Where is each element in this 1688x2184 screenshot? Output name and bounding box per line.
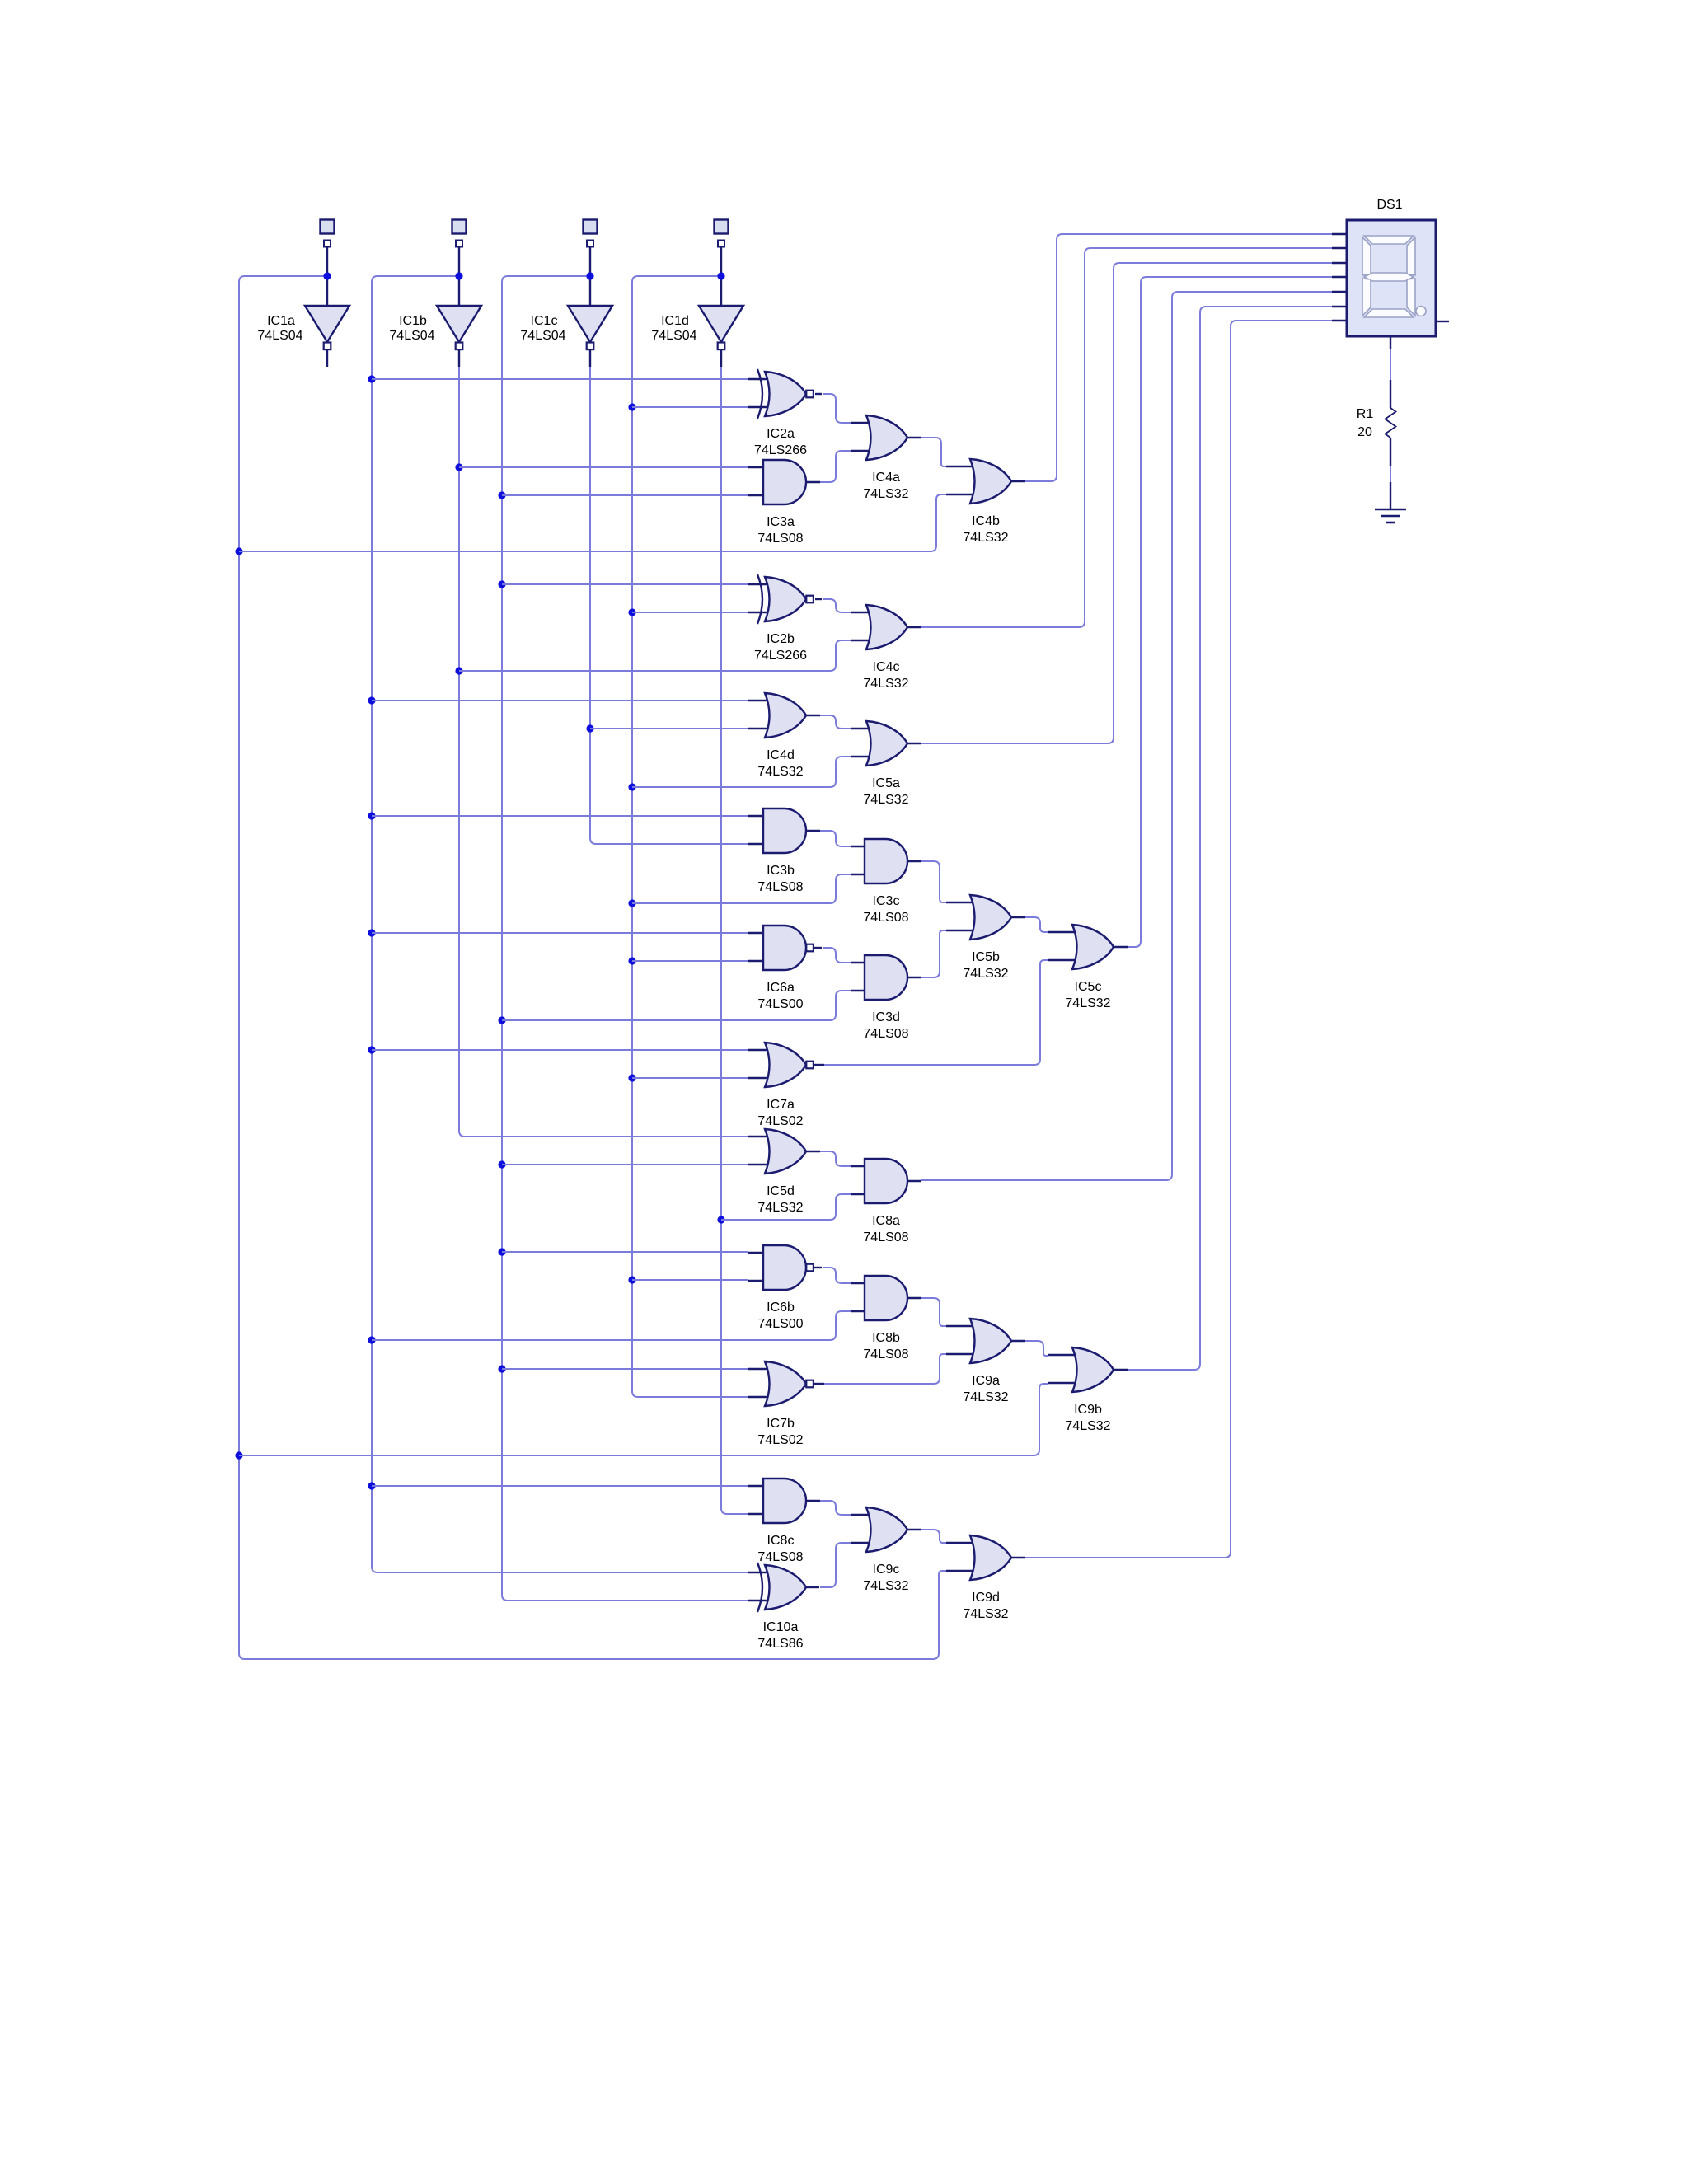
svg-text:74LS00: 74LS00 [757, 997, 803, 1011]
svg-text:IC5a: IC5a [872, 776, 900, 790]
wire IC3d output to IC5b input 2 [921, 930, 946, 977]
svg-text:IC4d: IC4d [767, 748, 795, 762]
NOR gate IC7a 74LS02 [748, 1043, 824, 1128]
wire DS1 common pin to R1 [1390, 349, 1391, 380]
svg-text:IC1a: IC1a [267, 314, 295, 328]
wire IC5b output to IC5c input 1 [1025, 917, 1048, 932]
wire IC6b output to IC8b input 1 [823, 1268, 851, 1283]
wire segment f : IC9b output to DS1 pin 6 [1128, 307, 1332, 1370]
svg-text:IC5c: IC5c [1075, 980, 1102, 994]
wire C to IC7b input 1 [502, 1368, 748, 1370]
svg-text:IC9a: IC9a [972, 1374, 1000, 1388]
OR gate IC5d 74LS32 [748, 1129, 820, 1215]
wire C to IC5d input 2 [502, 1164, 748, 1165]
svg-text:74LS32: 74LS32 [863, 677, 908, 691]
svg-text:74LS02: 74LS02 [757, 1114, 803, 1128]
net D' : IC1d output bus [717, 367, 748, 1514]
wire C to IC3d input 2 [502, 991, 851, 1020]
svg-text:IC1b: IC1b [399, 314, 427, 328]
AND gate IC3d 74LS08 [851, 955, 921, 1041]
svg-text:IC1d: IC1d [661, 314, 689, 328]
wire B' to IC3a input 1 [459, 466, 748, 468]
svg-text:IC9c: IC9c [873, 1563, 900, 1577]
svg-text:IC5d: IC5d [767, 1184, 795, 1198]
svg-text:IC2b: IC2b [767, 632, 795, 646]
resistor R1 20 [1357, 380, 1396, 466]
wire R1 to ground [1390, 466, 1391, 482]
wire B to IC4d input 1 [372, 700, 748, 701]
OR gate IC4a 74LS32 [851, 415, 921, 501]
inverter IC1d 74LS04 [651, 246, 743, 367]
wire segment a : IC4b output to DS1 pin 1 [1025, 234, 1332, 481]
svg-text:74LS04: 74LS04 [651, 329, 696, 343]
wire IC5d output to IC8a input 1 [818, 1151, 851, 1166]
svg-text:IC3b: IC3b [767, 864, 795, 878]
svg-text:74LS00: 74LS00 [757, 1317, 803, 1331]
OR gate IC9a 74LS32 [946, 1319, 1025, 1404]
wire B to IC6a input 1 [372, 932, 748, 934]
NAND gate IC6a 74LS00 [748, 926, 822, 1011]
input terminal 3 [584, 220, 598, 247]
wire IC9a output to IC9b input 1 [1025, 1341, 1048, 1356]
wire A to IC4b input 2 [239, 494, 946, 551]
svg-text:IC2a: IC2a [767, 427, 795, 441]
wire D to IC6b input 2 [632, 1279, 748, 1281]
wire D to IC2b input 2 [632, 612, 748, 613]
svg-text:74LS32: 74LS32 [863, 487, 908, 501]
svg-text:IC9d: IC9d [972, 1591, 1000, 1605]
wire B to IC8b input 2 [372, 1311, 851, 1340]
ground symbol [1375, 482, 1406, 523]
svg-text:R1: R1 [1357, 407, 1374, 421]
net B : input-2 bus [368, 272, 748, 1572]
inverter IC1c 74LS04 [520, 246, 612, 367]
svg-text:IC3c: IC3c [873, 894, 900, 908]
XNOR gate IC2a 74LS266 [748, 369, 822, 457]
OR gate IC5a 74LS32 [851, 721, 921, 807]
svg-text:IC4c: IC4c [873, 660, 900, 674]
AND gate IC8b 74LS08 [851, 1276, 921, 1361]
inverter IC1a 74LS04 [257, 246, 349, 367]
OR gate IC4b 74LS32 [946, 459, 1025, 545]
wire D to IC5a input 2 [632, 757, 851, 787]
svg-text:IC3a: IC3a [767, 515, 795, 529]
svg-text:74LS08: 74LS08 [757, 1550, 803, 1564]
svg-text:74LS08: 74LS08 [863, 911, 908, 925]
wire IC3c output to IC5b input 1 [921, 861, 946, 902]
OR gate IC9c 74LS32 [851, 1507, 921, 1593]
net C' : IC1c output bus [586, 367, 748, 844]
svg-text:74LS32: 74LS32 [963, 531, 1008, 545]
XOR gate IC10a 74LS86 [748, 1563, 819, 1651]
wire segment c : IC5a output to DS1 pin 3 [921, 263, 1332, 743]
wire B to IC3b input 1 [372, 815, 748, 817]
svg-text:IC3d: IC3d [872, 1010, 900, 1024]
wire IC2b output to IC4c input 1 [823, 599, 851, 612]
svg-text:74LS32: 74LS32 [863, 1579, 908, 1593]
svg-text:IC9b: IC9b [1074, 1403, 1102, 1417]
input terminal 4 [715, 220, 729, 247]
wire A to IC9b input 2 [239, 1384, 1048, 1455]
AND gate IC8c 74LS08 [748, 1479, 820, 1564]
AND gate IC3b 74LS08 [748, 808, 820, 894]
svg-text:74LS04: 74LS04 [389, 329, 434, 343]
wire D to IC2a input 2 [632, 406, 748, 408]
svg-text:IC4a: IC4a [872, 471, 900, 485]
wire IC3b output to IC3c input 1 [820, 831, 851, 846]
svg-text:IC7b: IC7b [767, 1417, 795, 1431]
wire IC4a output to IC4b input 1 [921, 438, 946, 466]
wire IC8b output to IC9a input 1 [921, 1298, 946, 1326]
wire C to IC6b input 1 [502, 1251, 748, 1253]
svg-text:IC8a: IC8a [872, 1214, 900, 1228]
svg-text:IC8b: IC8b [872, 1331, 900, 1345]
wire D to IC6a input 2 [632, 960, 748, 962]
input terminal 1 [321, 220, 335, 247]
OR gate IC5b 74LS32 [946, 895, 1025, 981]
inverter IC1b 74LS04 [389, 246, 481, 367]
NOR gate IC7b 74LS02 [748, 1361, 824, 1447]
svg-text:74LS86: 74LS86 [757, 1637, 803, 1651]
net D : input-4 bus [628, 272, 748, 1397]
wire C' to IC4d input 2 [590, 728, 748, 729]
wire segment g : IC9d output to DS1 pin 7 [1025, 321, 1332, 1558]
wire C to IC2b input 1 [502, 583, 748, 585]
wire C to IC3a input 2 [502, 494, 748, 496]
wire IC6a output to IC3d input 1 [823, 948, 851, 963]
wire segment b : IC4c output to DS1 pin 2 [921, 248, 1332, 627]
svg-text:IC1c: IC1c [531, 314, 558, 328]
svg-text:20: 20 [1357, 425, 1372, 439]
wire segment e : IC8a output to DS1 pin 5 [921, 292, 1332, 1180]
svg-text:74LS02: 74LS02 [757, 1433, 803, 1447]
wire B' to IC4c input 2 [459, 640, 851, 671]
wire IC9c output to IC9d input 1 [921, 1530, 946, 1543]
svg-text:IC6a: IC6a [767, 981, 795, 995]
svg-text:IC6b: IC6b [767, 1301, 795, 1315]
AND gate IC8a 74LS08 [851, 1159, 921, 1244]
svg-text:74LS32: 74LS32 [757, 1201, 803, 1215]
wire IC10a output to IC9c input 2 [820, 1543, 851, 1587]
AND gate IC3c 74LS08 [851, 839, 921, 925]
svg-text:74LS32: 74LS32 [963, 1607, 1008, 1621]
svg-text:IC10a: IC10a [763, 1620, 799, 1634]
NAND gate IC6b 74LS00 [748, 1245, 822, 1331]
wire IC4d output to IC5a input 1 [818, 715, 851, 729]
wire D' to IC8a input 2 [721, 1194, 851, 1220]
svg-text:74LS32: 74LS32 [863, 793, 908, 807]
svg-text:74LS04: 74LS04 [520, 329, 565, 343]
svg-text:74LS266: 74LS266 [754, 443, 807, 457]
svg-text:74LS08: 74LS08 [863, 1347, 908, 1361]
net A : input-1 bus [235, 272, 946, 1659]
wire IC8c output to IC9c input 1 [820, 1501, 851, 1515]
svg-text:74LS08: 74LS08 [757, 880, 803, 894]
XNOR gate IC2b 74LS266 [748, 574, 822, 663]
net B' : IC1b output bus [455, 367, 748, 1137]
wire segment d : IC5c output to DS1 pin 4 [1128, 277, 1332, 947]
input terminal 2 [452, 220, 467, 247]
svg-text:74LS08: 74LS08 [863, 1027, 908, 1041]
svg-text:IC7a: IC7a [767, 1098, 795, 1112]
svg-text:74LS266: 74LS266 [754, 649, 807, 663]
svg-text:74LS32: 74LS32 [757, 765, 803, 779]
OR gate IC9b 74LS32 [1048, 1347, 1128, 1433]
wire IC7b output to IC9a input 2 [824, 1354, 946, 1384]
svg-text:74LS08: 74LS08 [757, 532, 803, 546]
wire D to IC3c input 2 [632, 874, 851, 903]
svg-text:74LS04: 74LS04 [257, 329, 302, 343]
svg-text:DS1: DS1 [1376, 198, 1402, 212]
svg-text:74LS08: 74LS08 [863, 1230, 908, 1244]
svg-text:74LS32: 74LS32 [963, 967, 1008, 981]
wire B to IC8c input 1 [372, 1485, 748, 1487]
net C : input-3 bus [498, 272, 748, 1601]
svg-text:74LS32: 74LS32 [1065, 1419, 1110, 1433]
wire D to IC7a input 2 [632, 1077, 748, 1079]
svg-text:74LS32: 74LS32 [1065, 996, 1110, 1010]
wire B to IC2a input 1 [372, 378, 748, 380]
7-segment display DS1 [1332, 198, 1449, 349]
svg-text:IC5b: IC5b [972, 950, 1000, 964]
AND gate IC3a 74LS08 [748, 460, 820, 546]
OR gate IC4c 74LS32 [851, 605, 921, 691]
wire IC3a output to IC4a input 2 [820, 451, 851, 482]
wire IC2a output to IC4a input 1 [823, 394, 851, 423]
svg-text:74LS32: 74LS32 [963, 1390, 1008, 1404]
svg-text:IC8c: IC8c [767, 1534, 795, 1548]
OR gate IC5c 74LS32 [1048, 925, 1128, 1010]
OR gate IC4d 74LS32 [748, 693, 820, 779]
wire B to IC7a input 1 [372, 1049, 748, 1051]
svg-text:IC4b: IC4b [972, 514, 1000, 528]
OR gate IC9d 74LS32 [946, 1535, 1025, 1621]
wire IC7a output to IC5c input 2 [824, 960, 1048, 1065]
